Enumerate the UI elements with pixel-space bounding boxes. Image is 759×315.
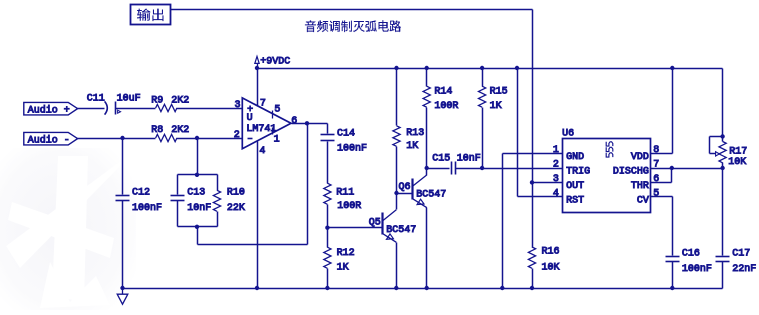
svg-text:100nF: 100nF: [337, 143, 367, 154]
svg-text:C14: C14: [337, 129, 355, 140]
svg-text:7: 7: [260, 99, 266, 110]
svg-text:1: 1: [274, 135, 280, 146]
svg-text:DISCHG: DISCHG: [613, 166, 649, 177]
svg-text:5: 5: [653, 189, 659, 200]
svg-text:100nF: 100nF: [682, 264, 712, 275]
svg-text:4: 4: [259, 146, 265, 157]
svg-text:Q5: Q5: [369, 218, 381, 229]
svg-text:Audio +: Audio +: [28, 104, 70, 116]
svg-text:3: 3: [553, 174, 559, 185]
svg-text:100nF: 100nF: [132, 203, 162, 214]
svg-text:Q6: Q6: [399, 182, 411, 193]
svg-text:10uF: 10uF: [117, 94, 141, 105]
svg-text:1K: 1K: [490, 101, 502, 112]
svg-text:22nF: 22nF: [732, 264, 756, 275]
svg-text:VDD: VDD: [631, 152, 649, 163]
svg-text:2K2: 2K2: [171, 95, 189, 106]
svg-text:8: 8: [653, 145, 659, 156]
svg-text:R8: R8: [151, 125, 163, 136]
svg-text:R14: R14: [434, 86, 452, 97]
svg-text:BC547: BC547: [386, 225, 416, 236]
svg-text:Audio -: Audio -: [28, 134, 70, 146]
svg-text:U: U: [247, 113, 253, 124]
svg-text:C15: C15: [432, 154, 450, 165]
svg-text:10nF: 10nF: [457, 154, 481, 165]
svg-text:2: 2: [553, 160, 559, 171]
svg-text:R13: R13: [406, 128, 424, 139]
svg-text:4: 4: [553, 189, 559, 200]
svg-text:OUT: OUT: [566, 181, 584, 192]
svg-text:TRIG: TRIG: [566, 166, 590, 177]
svg-text:LM741: LM741: [246, 124, 276, 135]
svg-text:U6: U6: [562, 128, 574, 139]
svg-text:2: 2: [234, 130, 240, 141]
svg-text:C17: C17: [732, 248, 750, 259]
svg-text:R10: R10: [227, 187, 245, 198]
svg-text:R12: R12: [337, 248, 355, 259]
svg-text:5: 5: [274, 105, 280, 116]
svg-text:100R: 100R: [434, 101, 458, 112]
svg-text:1K: 1K: [337, 262, 349, 273]
svg-text:100R: 100R: [337, 201, 361, 212]
svg-text:C16: C16: [682, 248, 700, 259]
svg-text:GND: GND: [566, 152, 584, 163]
svg-text:THR: THR: [631, 181, 649, 192]
svg-text:C12: C12: [132, 187, 150, 198]
svg-text:6: 6: [653, 174, 659, 185]
svg-text:7: 7: [653, 160, 659, 171]
svg-text:10K: 10K: [728, 157, 746, 168]
svg-text:+9VDC: +9VDC: [260, 57, 290, 68]
svg-text:R17: R17: [729, 147, 747, 158]
svg-text:BC547: BC547: [416, 190, 446, 201]
svg-text:C11: C11: [87, 94, 105, 105]
svg-text:2K2: 2K2: [171, 125, 189, 136]
svg-text:R11: R11: [336, 188, 354, 199]
svg-text:C13: C13: [187, 187, 205, 198]
svg-text:10K: 10K: [542, 262, 560, 273]
svg-text:3: 3: [235, 100, 241, 111]
svg-text:R15: R15: [490, 86, 508, 97]
svg-text:RST: RST: [566, 195, 584, 206]
svg-text:22K: 22K: [227, 203, 245, 214]
svg-text:1K: 1K: [406, 141, 418, 152]
svg-text:1: 1: [553, 145, 559, 156]
svg-text:6: 6: [291, 116, 297, 127]
svg-text:10nF: 10nF: [187, 203, 211, 214]
svg-text:R16: R16: [542, 247, 560, 258]
svg-text:R9: R9: [151, 95, 163, 106]
svg-text:CV: CV: [637, 195, 649, 206]
